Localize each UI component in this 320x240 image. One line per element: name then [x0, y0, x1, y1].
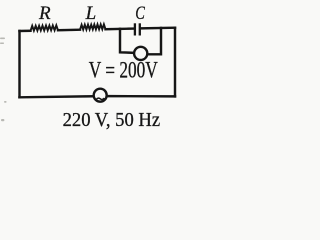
svg-text:L: L	[85, 3, 97, 24]
svg-text:220 V, 50 Hz: 220 V, 50 Hz	[63, 109, 161, 131]
svg-text:V = 200V: V = 200V	[89, 58, 158, 83]
svg-text:R: R	[38, 3, 51, 24]
svg-text:C: C	[135, 3, 145, 24]
